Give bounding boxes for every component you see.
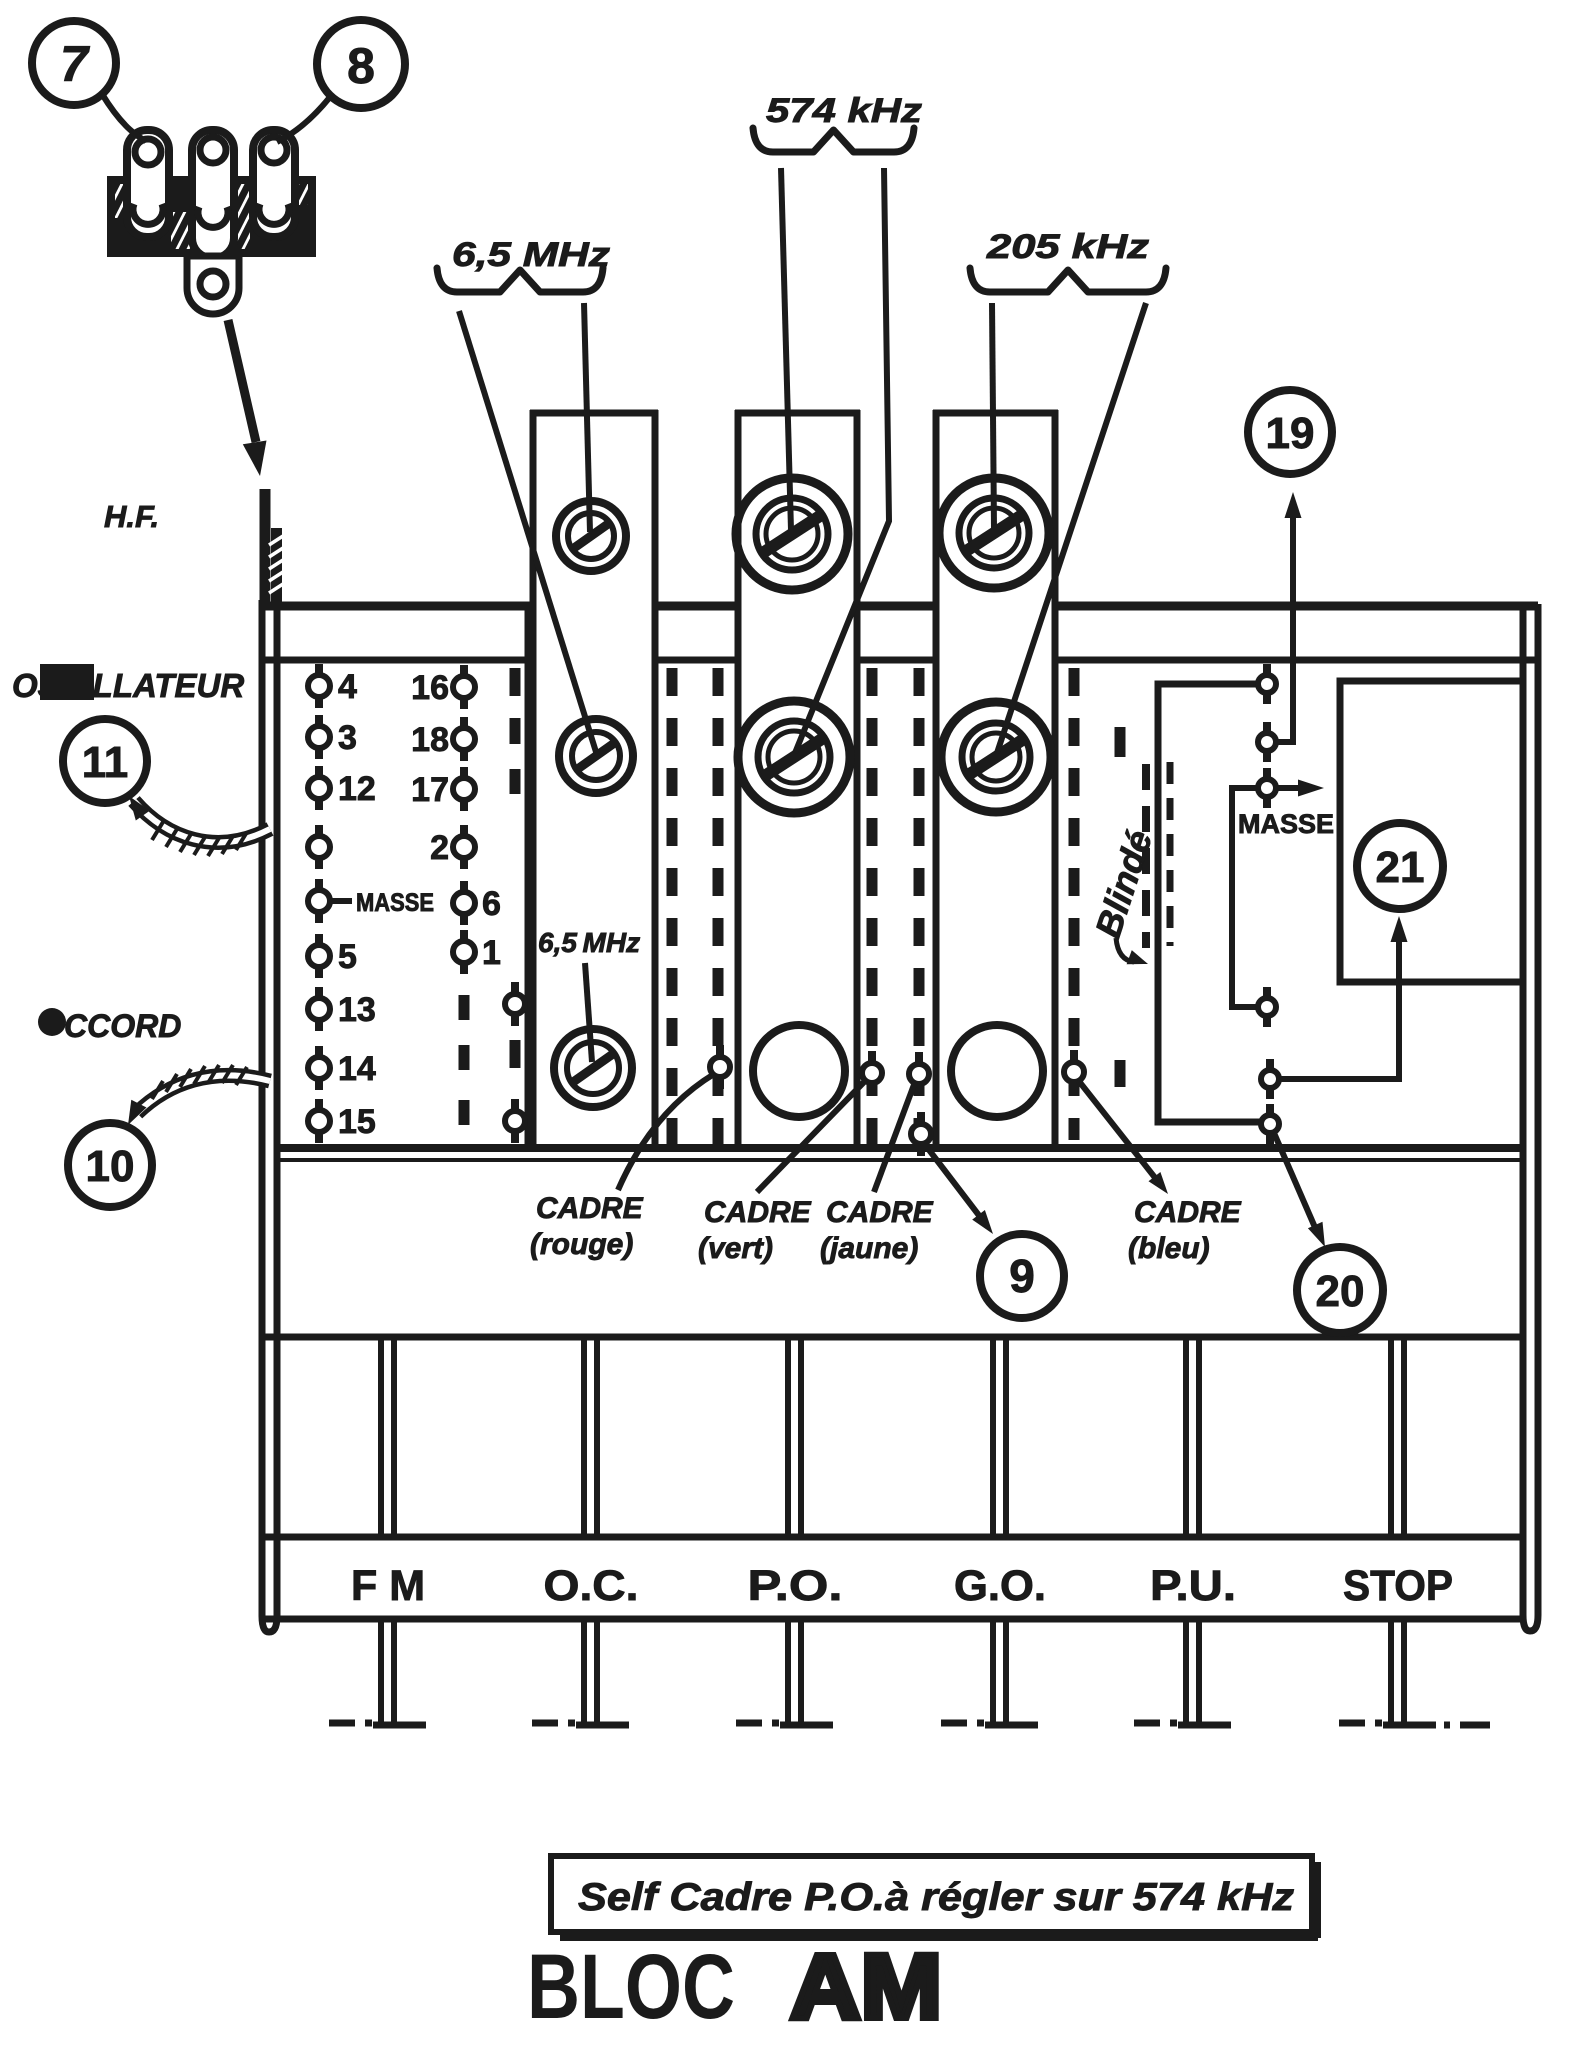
switch shaft O.C. lower part with dash-dot bbox=[581, 1619, 587, 1723]
pin 2 right column bbox=[460, 825, 468, 839]
switch shaft G.O. bbox=[990, 1340, 996, 1537]
O.C. middle trimmer bbox=[559, 719, 633, 793]
switch shaft F M bbox=[378, 1340, 384, 1537]
pin on x=515 dashed line (lower) bbox=[511, 1099, 519, 1114]
svg-text:Self Cadre P.O.à régler sur 57: Self Cadre P.O.à régler sur 574 kHz bbox=[578, 1876, 1295, 1919]
pin 1 right column bbox=[460, 930, 468, 944]
svg-text:MASSE: MASSE bbox=[356, 889, 434, 917]
O.C. top trimmer bbox=[556, 501, 626, 571]
svg-text:1: 1 bbox=[482, 934, 501, 972]
P.O. middle trimmer bbox=[738, 701, 850, 813]
leader CADRE jaune to pin bbox=[874, 1082, 915, 1192]
svg-text:9: 9 bbox=[1009, 1250, 1035, 1302]
leader 205kHz to G.O. middle trimmer bbox=[997, 303, 1146, 753]
arrow from terminal strip to H.F. input bbox=[228, 320, 267, 476]
switch shaft P.O. bbox=[785, 1340, 791, 1537]
pin for circle 19 wire bbox=[1263, 722, 1271, 736]
block second rail line bbox=[262, 657, 1538, 664]
shield open rectangle (blinde box) bbox=[1158, 684, 1260, 1122]
svg-text:574 kHz: 574 kHz bbox=[766, 92, 922, 130]
short dashed line x=1120 bbox=[1115, 727, 1126, 757]
svg-text:6,5 MHz: 6,5 MHz bbox=[452, 236, 610, 274]
svg-text:20: 20 bbox=[1316, 1267, 1365, 1316]
O.C. bottom trimmer bbox=[554, 1029, 632, 1107]
dashed line right of P.O. strip (x=872) bbox=[867, 668, 878, 1146]
dashed line x=919 bbox=[914, 668, 925, 1146]
terminal lug 2 (center, with bottom solder tab) bbox=[187, 130, 239, 314]
dashed line right of G.O. strip (x=1074) bbox=[1069, 668, 1080, 1140]
H.F. entry coil on block edge bbox=[265, 489, 283, 604]
dashed line between left section and O.C. strip (x=515) bbox=[510, 668, 521, 696]
G.O. bottom coil hole bbox=[951, 1025, 1043, 1117]
callout circle 9 bbox=[980, 1234, 1064, 1318]
switch shaft P.U. lower part with dash-dot bbox=[1183, 1619, 1189, 1723]
svg-text:(rouge): (rouge) bbox=[530, 1228, 633, 1261]
pin cadre rouge (x=720) bbox=[716, 1045, 724, 1060]
dashed stubs below pin 1 (x=464) bbox=[459, 995, 470, 1020]
svg-text:(jaune): (jaune) bbox=[820, 1232, 918, 1265]
label band bottom line bbox=[262, 1616, 1523, 1623]
Blinde label (rotated) bbox=[1087, 825, 1160, 942]
dashed line beside Blinde shield (x=1149) bbox=[1142, 764, 1150, 948]
callout circle 21 bbox=[1357, 823, 1443, 909]
leader 574kHz to P.O. middle trimmer (kinked) bbox=[795, 168, 889, 753]
svg-text:6,5 MHz: 6,5 MHz bbox=[538, 927, 640, 958]
callout circle 7 bbox=[32, 21, 116, 105]
braided wire from circle 10 into block (accord) bbox=[128, 1065, 270, 1125]
pin cadre vert (x=872) bbox=[868, 1051, 876, 1066]
pin (unlabeled) left column bbox=[315, 825, 323, 839]
svg-text:CCORD: CCORD bbox=[64, 1008, 181, 1044]
callout circle 8 bbox=[317, 20, 405, 108]
svg-text:BLOC: BLOC bbox=[527, 1936, 735, 2038]
svg-text:6: 6 bbox=[482, 885, 501, 923]
switch shaft G.O. lower part with dash-dot bbox=[990, 1619, 996, 1723]
svg-text:205 kHz: 205 kHz bbox=[986, 228, 1149, 266]
dashed line x=718 bbox=[713, 668, 724, 1146]
switch shaft STOP bbox=[1388, 1340, 1394, 1537]
P.O. bottom coil hole bbox=[753, 1025, 845, 1117]
pin for circle 21 wire bbox=[1266, 1059, 1274, 1073]
pin 14 left column bbox=[315, 1046, 323, 1060]
pin 15 left column bbox=[315, 1099, 323, 1113]
pin MASSE left column bbox=[315, 879, 323, 893]
block top rail line bbox=[259, 602, 1538, 611]
svg-text:STOP: STOP bbox=[1343, 1562, 1453, 1610]
note box: Self Cadre P.O. a regler sur 574 kHz bbox=[551, 1856, 1318, 1938]
brace under 6,5 MHz bbox=[437, 268, 603, 292]
pin 4 left column bbox=[315, 664, 323, 678]
block mid double line (bottom of strip area) bbox=[277, 1144, 1523, 1152]
arrow from pin to circle 9 bbox=[923, 1142, 993, 1234]
switch shaft P.U. bbox=[1183, 1340, 1189, 1537]
svg-text:3: 3 bbox=[338, 719, 357, 757]
leader 574kHz to P.O. top trimmer bbox=[781, 168, 791, 530]
svg-text:13: 13 bbox=[338, 991, 376, 1029]
leader CADRE rouge to pin bbox=[618, 1074, 714, 1190]
arrow from bottom pin to circle 20 bbox=[1274, 1133, 1325, 1247]
callout circle 20 bbox=[1297, 1247, 1383, 1333]
pin 5 left column bbox=[315, 934, 323, 948]
svg-text:CADRE: CADRE bbox=[826, 1196, 934, 1229]
callout circle 10 bbox=[68, 1123, 152, 1207]
main block left edge (double line) bbox=[262, 600, 277, 1632]
svg-text:F M: F M bbox=[351, 1562, 425, 1610]
pin for circle 9 (x=921) bbox=[917, 1112, 925, 1127]
pin 12 left column bbox=[315, 766, 323, 780]
svg-text:11: 11 bbox=[82, 738, 129, 787]
pin 17 right column bbox=[460, 767, 468, 781]
pin 18 right column bbox=[460, 717, 468, 731]
terminal lug 3 bbox=[253, 130, 295, 237]
pin on x=515 dashed line (upper) bbox=[511, 982, 519, 997]
svg-text:4: 4 bbox=[338, 668, 357, 706]
switch shaft STOP lower part with dash-dot bbox=[1388, 1619, 1394, 1723]
top pin (x=1267 y=684) bbox=[1263, 664, 1271, 678]
brace under 205 kHz bbox=[970, 268, 1166, 292]
label band top line bbox=[262, 1534, 1523, 1541]
pin 3 left column bbox=[315, 715, 323, 729]
switch shaft F M lower part with dash-dot bbox=[378, 1619, 384, 1723]
bracket lower pin bbox=[1263, 987, 1271, 1001]
callout circle 19 bbox=[1248, 390, 1332, 474]
braided wire from circle 11 into block (oscillateur) bbox=[129, 796, 270, 856]
switch section top line bbox=[262, 1334, 1523, 1341]
wire circle7 to lug1 bbox=[102, 94, 146, 141]
leader CADRE vert to pin bbox=[757, 1080, 866, 1192]
G.O. trimmer strip bbox=[933, 410, 1058, 1146]
main block right edge (double line) bbox=[1523, 604, 1538, 1631]
svg-text:CADRE: CADRE bbox=[704, 1196, 812, 1229]
svg-text:(bleu): (bleu) bbox=[1128, 1232, 1210, 1265]
svg-text:15: 15 bbox=[338, 1103, 376, 1141]
inner rectangle around circle 21 bbox=[1340, 681, 1523, 982]
svg-text:21: 21 bbox=[1376, 843, 1425, 892]
svg-text:(vert): (vert) bbox=[698, 1232, 773, 1265]
pin 13 left column bbox=[315, 987, 323, 1001]
MASSE arrow bbox=[1278, 780, 1324, 797]
Blinde arrow bbox=[1116, 938, 1148, 964]
left pin-section divider bbox=[525, 606, 530, 1148]
switch shaft O.C. bbox=[581, 1340, 587, 1537]
brace under 574 kHz bbox=[753, 128, 914, 152]
dash-dot before right edge foot bbox=[1444, 1722, 1450, 1729]
svg-text:AM: AM bbox=[790, 1936, 942, 2038]
svg-text:5: 5 bbox=[338, 938, 357, 976]
svg-text:P.U.: P.U. bbox=[1150, 1562, 1236, 1610]
terminal strip TB1 (hatched mounting block) bbox=[80, 177, 340, 256]
dashed line inside shield border (x=1166) bbox=[1167, 762, 1174, 946]
leader 205kHz to G.O. top trimmer bbox=[992, 303, 994, 529]
wire from pin up to circle 21 bbox=[1281, 916, 1408, 1079]
pin 6 right column bbox=[460, 881, 468, 895]
wire circle8 to lug3 bbox=[277, 97, 330, 142]
svg-text:O.C.: O.C. bbox=[544, 1562, 639, 1610]
bottom pin of shield rect bbox=[1266, 1104, 1274, 1118]
bracket wire MASSE pin to lower pin bbox=[1232, 788, 1258, 1007]
svg-text:14: 14 bbox=[338, 1050, 376, 1088]
G.O. middle trimmer bbox=[941, 702, 1051, 812]
svg-text:CADRE: CADRE bbox=[536, 1192, 644, 1225]
OSCILLATEUR label (partly smudged) bbox=[12, 664, 244, 704]
svg-text:12: 12 bbox=[338, 770, 376, 808]
svg-text:8: 8 bbox=[347, 38, 375, 94]
callout circle 11 bbox=[63, 719, 147, 803]
P.O. top trimmer bbox=[736, 478, 848, 590]
P.O. trimmer strip bbox=[735, 410, 860, 1146]
svg-text:7: 7 bbox=[60, 36, 90, 92]
svg-text:MASSE: MASSE bbox=[1238, 809, 1334, 839]
pin cadre jaune (x=919) bbox=[915, 1052, 923, 1067]
svg-text:18: 18 bbox=[411, 721, 449, 759]
leader CADRE bleu with arrowhead bbox=[1078, 1080, 1168, 1194]
svg-text:10: 10 bbox=[86, 1142, 135, 1191]
ACCORD label (first letter smudged) bbox=[38, 1008, 181, 1044]
svg-text:G.O.: G.O. bbox=[954, 1562, 1046, 1610]
svg-text:H.F.: H.F. bbox=[104, 499, 159, 534]
terminal lug 1 bbox=[127, 130, 169, 237]
leader 6,5MHz to O.C. top trimmer bbox=[584, 303, 590, 532]
leader 6,5MHz to O.C. middle trimmer bbox=[459, 311, 596, 752]
O.C. trimmer strip bbox=[530, 410, 658, 1146]
svg-text:P.O.: P.O. bbox=[748, 1562, 843, 1610]
switch shaft P.O. lower part with dash-dot bbox=[785, 1619, 791, 1723]
pin cadre bleu (x=1074) bbox=[1070, 1050, 1078, 1065]
svg-text:17: 17 bbox=[411, 771, 449, 809]
svg-text:19: 19 bbox=[1266, 409, 1315, 458]
wire from pin up to circle 19 bbox=[1278, 492, 1302, 742]
MASSE pin bbox=[1263, 768, 1271, 782]
pin 16 right column bbox=[460, 665, 468, 679]
dashed line right of O.C. strip (x=672) bbox=[667, 668, 678, 1146]
G.O. top trimmer bbox=[939, 478, 1049, 588]
svg-text:2: 2 bbox=[430, 829, 449, 867]
svg-text:CADRE: CADRE bbox=[1134, 1196, 1242, 1229]
leader inner 6,5MHz to O.C. bottom trimmer bbox=[585, 963, 592, 1062]
svg-text:16: 16 bbox=[411, 669, 449, 707]
